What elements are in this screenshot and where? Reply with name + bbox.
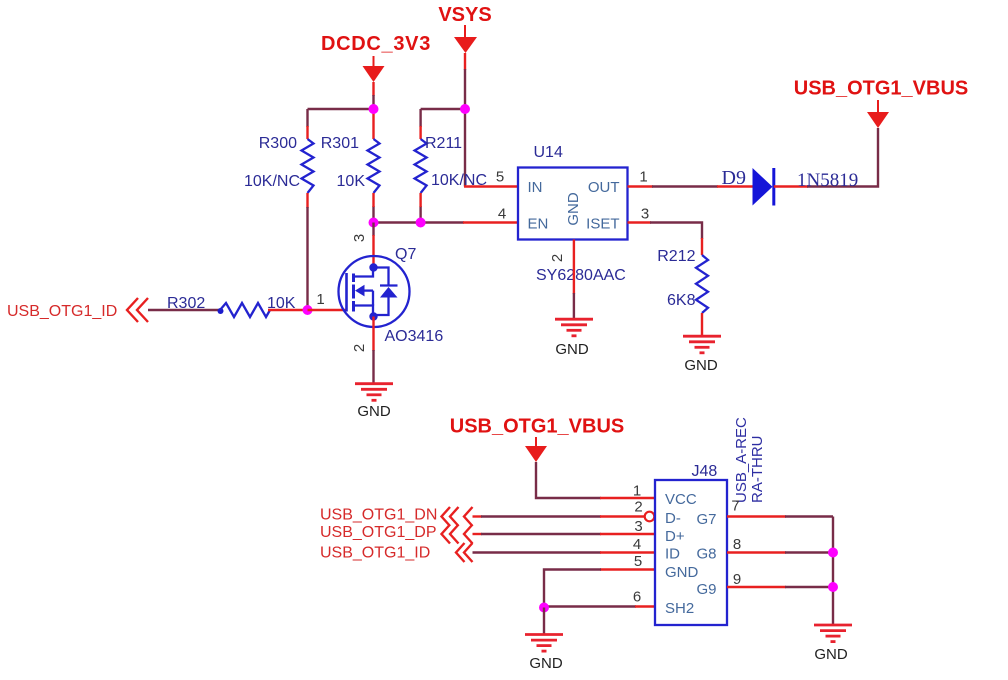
svg-text:DCDC_3V3: DCDC_3V3	[321, 33, 431, 55]
svg-text:USB_OTG1_VBUS: USB_OTG1_VBUS	[794, 78, 969, 100]
svg-text:1: 1	[633, 483, 641, 500]
ground Q7	[355, 384, 393, 420]
wire VBUS to J48 pin 1	[536, 462, 655, 498]
wire Q7 drain pin 3	[372, 223, 374, 268]
svg-text:R302: R302	[167, 295, 205, 312]
svg-text:GND: GND	[814, 646, 848, 663]
junction node SH2-GND	[539, 603, 549, 613]
wire DCDC_3V3 vertical to junction	[372, 82, 374, 109]
ground U14	[555, 319, 593, 358]
svg-text:10K/NC: 10K/NC	[431, 172, 487, 189]
svg-text:GND: GND	[357, 403, 391, 420]
svg-text:ISET: ISET	[586, 216, 619, 233]
svg-text:1: 1	[639, 169, 647, 186]
wire U14 ISET to R212	[628, 223, 703, 240]
resistor R301	[321, 113, 380, 207]
ground R212	[683, 336, 721, 374]
net label USB_OTG1_ID left	[7, 298, 148, 322]
transistor Q7	[339, 246, 444, 345]
junction node VSYS	[460, 104, 470, 114]
svg-text:4: 4	[498, 206, 506, 223]
svg-text:GND: GND	[665, 564, 699, 581]
wire J48 GND pin 5	[544, 570, 655, 609]
svg-text:3: 3	[641, 206, 649, 223]
wire horizontal R211 top to VSYS node	[421, 108, 465, 110]
wire J48 pin 9	[727, 586, 833, 588]
svg-text:R301: R301	[321, 135, 359, 152]
svg-text:2: 2	[549, 254, 566, 262]
pin 2 bubble	[645, 512, 655, 522]
svg-text:USB_OTG1_ID: USB_OTG1_ID	[320, 545, 430, 562]
wire J48 pin 7	[727, 515, 833, 517]
svg-text:J48: J48	[692, 463, 718, 480]
wire R211 bottom to EN node	[419, 206, 421, 223]
junction node gate	[303, 305, 313, 315]
wire R300 bottom long drop to gate node	[306, 207, 308, 310]
wire EN row junction to U14	[374, 221, 519, 223]
ground J48 right	[814, 625, 852, 663]
svg-text:2: 2	[634, 499, 642, 516]
ground J48 left	[525, 635, 563, 673]
svg-text:2: 2	[351, 344, 368, 352]
wire gate pin 1	[308, 309, 348, 311]
svg-text:10K: 10K	[267, 295, 296, 312]
svg-text:3: 3	[351, 234, 368, 242]
wire R211 top lead drop	[419, 109, 421, 127]
wire VSYS node down to U14 IN	[464, 109, 466, 187]
svg-text:D9: D9	[722, 167, 746, 189]
svg-text:1: 1	[316, 291, 324, 308]
junction node DCDC	[369, 104, 379, 114]
svg-text:10K: 10K	[337, 173, 366, 190]
wire J48 SH2 pin 6	[544, 605, 655, 607]
svg-text:USB_OTG1_VBUS: USB_OTG1_VBUS	[450, 416, 625, 438]
node dot on ID wire	[218, 308, 224, 314]
svg-text:G8: G8	[696, 546, 716, 563]
wire R300 top lead drop	[306, 109, 308, 127]
svg-text:R211: R211	[425, 135, 462, 152]
svg-text:RA-THRU: RA-THRU	[749, 436, 766, 504]
svg-text:7: 7	[731, 498, 739, 515]
diode D9	[722, 167, 774, 206]
wire J48 pin 8	[727, 551, 833, 553]
resistor R211	[415, 126, 487, 207]
IC U14 SY6280AAC	[518, 144, 628, 284]
connector J48	[655, 463, 727, 625]
svg-text:R300: R300	[259, 135, 297, 152]
wire VSYS vertical to junction	[464, 53, 466, 109]
svg-text:4: 4	[633, 536, 641, 553]
svg-text:VCC: VCC	[665, 491, 697, 508]
svg-text:USB_A-REC: USB_A-REC	[733, 417, 750, 503]
svg-text:VSYS: VSYS	[438, 4, 491, 26]
junction node pin8 bus	[828, 548, 838, 558]
svg-text:SH2: SH2	[665, 600, 694, 617]
net label USB_OTG1_DN	[320, 507, 473, 527]
wire ID to J48 pin 4	[473, 551, 656, 553]
svg-text:USB_OTG1_DN: USB_OTG1_DN	[320, 507, 437, 524]
junction node EN-R211	[416, 218, 426, 228]
wire U14 IN horizontal	[464, 185, 518, 187]
wire R301 bottom to EN node	[372, 206, 374, 223]
resistor R300	[244, 126, 314, 208]
net label USB_OTG1_DP	[320, 524, 473, 544]
wire DP to J48 pin 3	[473, 533, 656, 535]
junction node EN-R301	[369, 218, 379, 228]
wire horizontal R300 top to DCDC node	[308, 108, 374, 110]
svg-text:USB_OTG1_DP: USB_OTG1_DP	[320, 524, 436, 541]
svg-text:D-: D-	[665, 510, 681, 527]
svg-text:USB_OTG1_ID: USB_OTG1_ID	[7, 303, 117, 320]
wire DN to J48 pin 2	[473, 515, 645, 517]
svg-text:D+: D+	[665, 528, 685, 545]
net label USB_OTG1_ID bottom	[320, 543, 473, 562]
resistor R212	[657, 238, 708, 336]
svg-text:R212: R212	[657, 248, 695, 265]
svg-text:10K/NC: 10K/NC	[244, 173, 300, 190]
wire junction to ground	[543, 608, 545, 635]
svg-text:GND: GND	[555, 341, 589, 358]
svg-text:GND: GND	[529, 655, 563, 672]
wire ID label to R302	[148, 309, 222, 311]
svg-text:G7: G7	[696, 511, 716, 528]
power port DCDC_3V3	[321, 33, 431, 82]
svg-text:IN: IN	[528, 179, 543, 196]
svg-text:1N5819: 1N5819	[797, 170, 858, 191]
svg-text:U14: U14	[534, 144, 563, 161]
power port VSYS	[438, 4, 491, 53]
wire U14 GND pin 2	[573, 240, 575, 319]
svg-text:5: 5	[496, 169, 504, 186]
svg-text:6: 6	[633, 589, 641, 606]
svg-text:ID: ID	[665, 546, 680, 563]
svg-text:Q7: Q7	[395, 246, 416, 263]
svg-text:3: 3	[634, 518, 642, 535]
svg-text:AO3416: AO3416	[385, 328, 444, 345]
svg-text:OUT: OUT	[588, 179, 620, 196]
svg-text:G9: G9	[696, 581, 716, 598]
power port USB_OTG1_VBUS top	[794, 78, 969, 129]
wire U14 OUT to D9	[628, 185, 753, 187]
svg-text:8: 8	[733, 536, 741, 553]
svg-text:EN: EN	[528, 216, 549, 233]
svg-text:9: 9	[733, 571, 741, 588]
svg-text:5: 5	[634, 553, 642, 570]
wire right bus vertical	[832, 517, 834, 625]
wire Q7 source pin 2	[372, 317, 374, 384]
wire D9 to VBUS corner	[774, 128, 878, 191]
resistor R302	[167, 295, 308, 317]
svg-text:6K8: 6K8	[667, 292, 696, 309]
svg-text:GND: GND	[684, 357, 718, 374]
power port USB_OTG1_VBUS bottom	[450, 416, 625, 463]
svg-text:GND: GND	[565, 192, 582, 226]
junction node pin9 bus	[828, 582, 838, 592]
svg-text:SY6280AAC: SY6280AAC	[536, 267, 626, 284]
